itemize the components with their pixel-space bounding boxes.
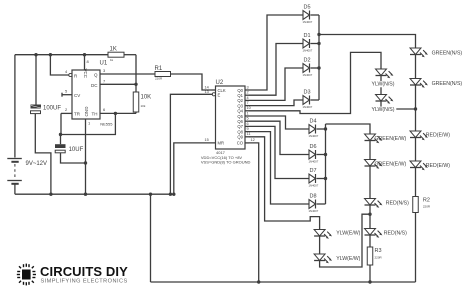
label 1K	[110, 47, 117, 53]
svg-text:D3: D3	[304, 90, 311, 96]
U2 pin label CLK	[218, 88, 226, 93]
node ground-100UF junction	[49, 193, 52, 196]
U2 pin Q1 stub	[245, 94, 249, 96]
node 10UF-GND junction	[84, 161, 87, 164]
logo chip icon	[17, 264, 36, 286]
label VDD note	[201, 155, 243, 160]
svg-text:RED(E/W): RED(E/W)	[426, 163, 450, 169]
label YLW(E/W) 1	[336, 231, 360, 237]
U2 pin label E	[218, 92, 221, 97]
svg-text:SIMPLIFYING ELECTRONICS: SIMPLIFYING ELECTRONICS	[41, 279, 128, 285]
svg-text:GREEN(N/S): GREEN(N/S)	[432, 81, 463, 87]
battery B1 9V~12V	[7, 55, 21, 195]
ground rail bottom	[151, 281, 416, 283]
label RED(E/W) 2	[426, 163, 450, 169]
wire Q8 to D8	[249, 132, 309, 204]
node bus2-D4	[324, 127, 327, 130]
diode D5 1N4007	[303, 11, 319, 20]
U1 pin4 number	[65, 69, 68, 74]
svg-text:1N4007: 1N4007	[303, 20, 313, 24]
svg-text:1N4007: 1N4007	[309, 209, 319, 213]
U2 pin Q9 stub	[245, 136, 249, 138]
wire CO to bottom rail	[249, 143, 259, 282]
label YLW(N/S) 1	[371, 81, 397, 87]
U2 pin14 number	[205, 85, 209, 89]
U1 pin label TH	[92, 112, 98, 117]
svg-text:7: 7	[247, 101, 249, 105]
diode D1 1N4007	[303, 39, 319, 48]
resistor R1	[155, 72, 171, 77]
label R3 value 220R	[375, 256, 383, 260]
U2 pin11 number	[247, 132, 251, 136]
svg-text:1N4007: 1N4007	[309, 184, 319, 188]
svg-text:10k: 10k	[141, 104, 146, 108]
label D4	[310, 119, 317, 125]
svg-text:100UF: 100UF	[43, 106, 61, 112]
svg-text:TH: TH	[92, 112, 98, 117]
U2 pin label Q3	[237, 103, 243, 108]
diode D4 1N4007	[309, 125, 326, 134]
U2 pin10 number	[247, 106, 251, 110]
wire bottom diode cathode bus	[325, 124, 327, 204]
svg-text:D6: D6	[310, 144, 317, 150]
label D5	[304, 5, 311, 11]
wire Q6 to D6	[249, 121, 309, 154]
U2 pin Q4 stub	[245, 110, 249, 112]
wire TR-TH tie loop	[61, 113, 115, 134]
label 10UF	[69, 147, 84, 153]
resistor R2	[413, 197, 419, 213]
node bus2-D6	[324, 153, 327, 156]
svg-text:CO: CO	[237, 141, 244, 146]
U1 pin2 number	[65, 107, 68, 112]
label GREEN(E/W) 1	[375, 136, 407, 142]
label R2	[423, 198, 430, 204]
svg-text:15: 15	[205, 138, 209, 142]
svg-text:12: 12	[251, 138, 255, 142]
node branch1-YLW join	[414, 107, 417, 110]
U2 pin12 number	[251, 138, 255, 142]
U2 pin E bubble	[212, 93, 215, 96]
U2 pin CLK stub	[212, 89, 216, 91]
svg-text:8: 8	[87, 59, 90, 64]
node VCC-reset junction	[49, 53, 52, 56]
led RED(E/W) 2	[410, 161, 428, 197]
svg-text:1N4007: 1N4007	[309, 134, 319, 138]
svg-text:R1: R1	[155, 66, 163, 72]
label R3	[375, 248, 382, 254]
label VSS note	[201, 160, 251, 165]
U2 pin label Q7	[237, 124, 243, 129]
label D7 value 1N4007	[309, 184, 319, 188]
label RED(N/S) 1	[386, 201, 409, 207]
svg-text:GREEN(E/W): GREEN(E/W)	[375, 136, 407, 142]
svg-text:RED(E/W): RED(E/W)	[426, 133, 450, 139]
diode D2 1N4007	[303, 64, 319, 73]
U2 pin7 number	[247, 101, 249, 105]
label 10k small	[141, 104, 146, 108]
U2 pin label Q1	[237, 93, 243, 98]
led GREEN(E/W) 1	[365, 134, 383, 159]
node bus-takeoff NS	[317, 33, 320, 36]
wire Q pin3 to R1	[100, 73, 155, 75]
label D3 value 1N4007	[303, 105, 313, 109]
svg-text:NE555: NE555	[100, 122, 113, 127]
label U2	[216, 80, 224, 86]
wire R3 to bottom rail	[369, 265, 371, 282]
label GREEN(N/S) 2	[432, 81, 463, 87]
label D3	[304, 90, 311, 96]
wire Q0 to D5	[249, 15, 303, 90]
wire 10K bottom to TH	[100, 112, 136, 113]
U2 pin label Q5	[237, 114, 243, 119]
node bottomrail-CO	[257, 280, 260, 283]
label 1K value small	[110, 58, 114, 62]
node ground-drop junction	[149, 193, 152, 196]
svg-text:9: 9	[247, 127, 249, 131]
U2 pin Q7 stub	[245, 125, 249, 127]
battery label 9V~12V	[26, 161, 48, 167]
svg-text:11: 11	[247, 132, 251, 136]
svg-text:1: 1	[88, 121, 91, 126]
U2 pin label Q9	[237, 135, 243, 140]
label YLW(N/S) 2	[371, 107, 397, 113]
wire Q5 to D4	[249, 116, 309, 129]
wire Q3 to D3	[249, 100, 303, 106]
wire U2 E pin13 to ground	[170, 94, 212, 194]
U1 pin label CV	[74, 93, 80, 98]
resistor R3	[367, 247, 373, 265]
logo tagline SIMPLIFYING ELECTRONICS	[41, 279, 128, 285]
U2 pin2 number	[247, 91, 249, 95]
svg-text:D7: D7	[310, 168, 317, 174]
led RED(N/S) 2	[365, 229, 383, 248]
svg-text:Q9: Q9	[237, 135, 243, 140]
label D8	[310, 194, 317, 200]
U1 GND pin1 stub	[85, 119, 87, 194]
svg-text:4: 4	[65, 69, 68, 74]
capacitor C2 10UF	[55, 135, 86, 164]
led YLW(N/S) 1	[376, 69, 394, 95]
svg-text:6: 6	[247, 122, 249, 126]
svg-text:1: 1	[247, 111, 249, 115]
svg-text:D2: D2	[304, 58, 311, 64]
svg-text:5: 5	[65, 89, 68, 94]
led GREEN(N/S) 2	[410, 79, 428, 131]
label R1	[155, 66, 163, 72]
U1 pin R bubble	[69, 73, 72, 76]
wire 1K to 10K	[135, 55, 137, 92]
svg-text:13: 13	[205, 90, 209, 94]
diode D7 1N4007	[309, 174, 326, 183]
svg-text:GREEN(N/S): GREEN(N/S)	[432, 51, 463, 57]
resistor 10K	[133, 92, 139, 112]
svg-text:10UF: 10UF	[69, 147, 84, 153]
svg-text:3: 3	[103, 68, 106, 73]
counter U2 4017 body	[216, 86, 246, 149]
U1 pin TR stub	[61, 112, 72, 114]
wire Q9 to YLW(E/W) chain	[249, 137, 320, 230]
label 100UF	[43, 106, 61, 112]
svg-text:1k: 1k	[110, 58, 114, 62]
U1 pin label R	[74, 73, 78, 78]
U2 pin Q5 stub	[245, 115, 249, 117]
svg-text:YLW(E/W): YLW(E/W)	[336, 256, 360, 262]
label D1 value 1N4007	[303, 49, 313, 53]
led RED(E/W) 1	[410, 131, 428, 161]
U2 pin9 number	[247, 127, 249, 131]
label YLW(E/W) 2	[336, 256, 360, 262]
wire VCC rail top	[15, 54, 136, 56]
led RED(N/S) 1	[365, 199, 383, 229]
U2 pin4 number	[247, 96, 249, 100]
label R2 value 220R	[423, 205, 431, 209]
wire NS takeoff to branch1	[319, 35, 416, 48]
led YLW(N/S) 2	[376, 95, 416, 110]
ground rail left	[15, 193, 174, 195]
U2 pin label Q2	[237, 98, 243, 103]
U1 label VCC vertical	[83, 69, 88, 79]
label GREEN(N/S) 1	[432, 51, 463, 57]
wire R2 to bottom rail	[415, 213, 417, 283]
label 4017	[216, 150, 226, 155]
label D2	[304, 58, 311, 64]
U2 pin label CO	[237, 141, 244, 146]
svg-text:220R: 220R	[375, 256, 383, 260]
wire top diode cathode bus	[318, 15, 320, 100]
node VCC-100UF junction	[34, 53, 37, 56]
U2 pin6 number	[247, 122, 249, 126]
svg-text:220R: 220R	[155, 77, 163, 81]
svg-text:DC: DC	[91, 83, 98, 88]
svg-text:D4: D4	[310, 119, 317, 125]
wire ground drop	[150, 194, 152, 282]
svg-text:R3: R3	[375, 248, 382, 254]
U1 VCC pin8 stub	[84, 55, 86, 70]
wire Q7 to D7	[249, 126, 309, 178]
node VCC-pin8 junction	[83, 53, 86, 56]
U2 pin Q3 stub	[245, 105, 249, 107]
label D6 value 1N4007	[309, 160, 319, 164]
node TH junction	[114, 112, 117, 115]
svg-text:CV: CV	[74, 93, 80, 98]
svg-text:MR: MR	[218, 141, 225, 146]
wire EW takeoff to branch2	[326, 124, 371, 134]
wire U2 MR pin15 to ground	[174, 143, 216, 194]
svg-text:1N4007: 1N4007	[303, 49, 313, 53]
diode D6 1N4007	[309, 150, 326, 159]
wire Q1 to D1	[249, 44, 303, 96]
label D6	[310, 144, 317, 150]
svg-text:RED(N/S): RED(N/S)	[384, 231, 407, 237]
svg-text:2: 2	[65, 107, 68, 112]
svg-text:YLW(N/S): YLW(N/S)	[372, 107, 395, 113]
U2 pin5 number	[247, 117, 249, 121]
node 10UF top junction	[59, 133, 62, 136]
label GREEN(E/W) 2	[375, 162, 407, 168]
U1 label GND vertical	[84, 107, 89, 118]
U2 pin3 number	[247, 85, 249, 89]
U1 pin6 number	[103, 107, 106, 112]
U2 pin Q2 stub	[245, 99, 249, 101]
svg-text:6: 6	[103, 107, 106, 112]
svg-text:CIRCUITS DIY: CIRCUITS DIY	[40, 264, 128, 279]
op-amp U1 NE555 body	[72, 70, 100, 119]
U2 pin Q0 stub	[245, 89, 249, 91]
svg-text:Q: Q	[94, 72, 98, 77]
U2 pin CO stub	[245, 142, 249, 144]
label D2 value 1N4007	[303, 73, 313, 77]
label D7	[310, 168, 317, 174]
svg-text:D1: D1	[304, 33, 311, 39]
svg-text:7: 7	[103, 78, 106, 83]
svg-text:220R: 220R	[423, 205, 431, 209]
U1 pin CV stub	[62, 93, 72, 97]
label D5 value 1N4007	[303, 20, 313, 24]
U2 pin13 number	[205, 90, 209, 94]
svg-text:U2: U2	[216, 80, 224, 86]
svg-text:GND: GND	[84, 107, 89, 118]
node bus-D2	[317, 66, 320, 69]
U2 pin label MR	[218, 141, 225, 146]
U1 pin8 number	[87, 59, 90, 64]
svg-text:D8: D8	[310, 194, 317, 200]
led YLW(E/W) 2	[314, 214, 370, 267]
U2 pin label Q6	[237, 119, 243, 124]
U1 pin5 number	[65, 89, 68, 94]
U2 pin label Q4	[237, 109, 243, 114]
U1 pin label TR	[74, 112, 81, 117]
label RED(E/W) 1	[426, 133, 450, 139]
diode D3 1N4007	[303, 96, 319, 105]
label D1	[304, 33, 311, 39]
svg-text:R2: R2	[423, 198, 430, 204]
node bottomrail-R3	[368, 280, 371, 283]
node ground-E junction	[169, 193, 172, 196]
svg-text:1K: 1K	[110, 47, 117, 53]
svg-text:GREEN(E/W): GREEN(E/W)	[375, 162, 407, 168]
svg-text:VCC: VCC	[83, 69, 88, 79]
svg-text:14: 14	[205, 85, 209, 89]
led GREEN(E/W) 2	[365, 160, 383, 199]
svg-text:RED(N/S): RED(N/S)	[386, 201, 409, 207]
wire R1 to U2 CLK	[171, 74, 212, 90]
svg-text:TR: TR	[74, 112, 81, 117]
label D8 value 1N4007	[309, 209, 319, 213]
U2 pin label Q0	[237, 88, 243, 93]
node bus-D1	[317, 42, 320, 45]
wire DC pin7 to 1K/10K node	[100, 83, 136, 85]
U2 pin label Q8	[237, 129, 243, 134]
label 10K	[141, 95, 152, 101]
svg-text:1N4007: 1N4007	[303, 73, 313, 77]
diode D8 1N4007	[309, 200, 326, 209]
svg-text:5: 5	[247, 117, 249, 121]
svg-text:9V~12V: 9V~12V	[26, 161, 48, 167]
svg-text:VSS=GND(8) TO GROUND: VSS=GND(8) TO GROUND	[201, 160, 251, 165]
svg-text:1N4007: 1N4007	[309, 160, 319, 164]
led GREEN(N/S) 1	[410, 48, 428, 78]
resistor 1K	[108, 52, 124, 57]
U2 pin Q8 stub	[245, 131, 249, 133]
svg-text:4: 4	[247, 96, 249, 100]
capacitor C1 100UF	[31, 55, 51, 195]
svg-text:3: 3	[247, 85, 249, 89]
label D4 value 1N4007	[309, 134, 319, 138]
svg-text:1N4007: 1N4007	[303, 105, 313, 109]
U1 pin label Q	[94, 72, 98, 77]
label R1 value 220R	[155, 77, 163, 81]
U2 pin Q6 stub	[245, 120, 249, 122]
svg-text:YLW(N/S): YLW(N/S)	[372, 82, 395, 88]
node ground-MR junction	[172, 193, 175, 196]
U1 pin3 number	[103, 68, 106, 73]
label NE555	[100, 122, 113, 127]
node branch2-YLW join	[368, 213, 371, 216]
label RED(N/S) 2	[384, 231, 407, 237]
label U1	[100, 61, 108, 67]
U2 pin15 number	[205, 138, 209, 142]
svg-text:D5: D5	[304, 5, 311, 11]
led YLW(E/W) 1	[314, 230, 332, 255]
logo text CIRCUITS DIY	[40, 264, 128, 279]
node DC junction	[134, 83, 137, 86]
wire U1 reset pin4 to VCC	[50, 55, 68, 75]
U1 pin1 number	[88, 121, 91, 126]
svg-text:2: 2	[247, 91, 249, 95]
U1 pin label DC	[91, 83, 98, 88]
svg-text:10: 10	[247, 106, 251, 110]
U1 pin7 number	[103, 78, 106, 83]
node ground-555GND junction	[84, 193, 87, 196]
wire Q2 to D2	[249, 68, 303, 100]
U2 pin1 number	[247, 111, 249, 115]
node bus2-D7	[324, 177, 327, 180]
svg-text:10K: 10K	[141, 95, 152, 101]
wire Q4 to YLW(N/S) chain	[249, 52, 381, 113]
svg-text:YLW(E/W): YLW(E/W)	[336, 231, 360, 237]
svg-text:E: E	[218, 92, 221, 97]
svg-text:U1: U1	[100, 61, 108, 67]
